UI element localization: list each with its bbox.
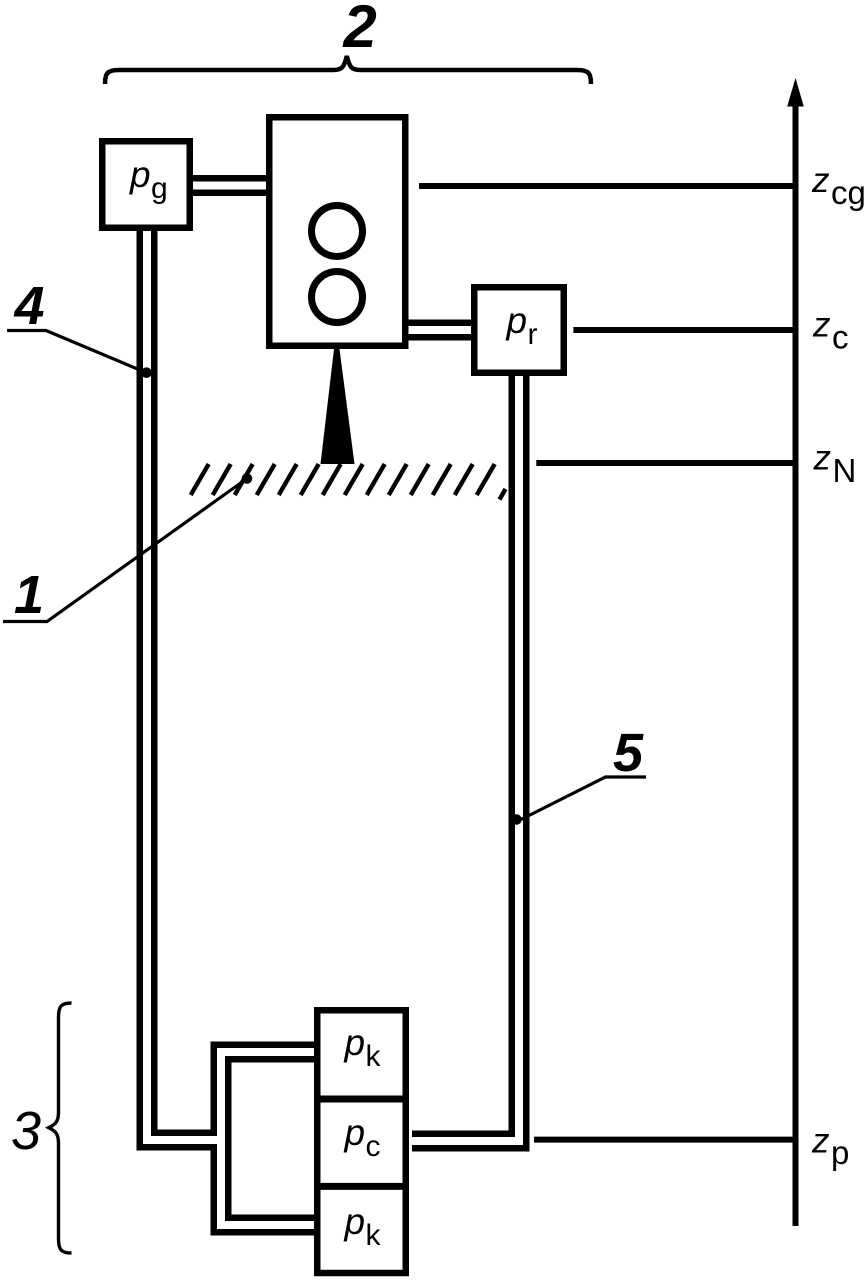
svg-text:z: z xyxy=(813,438,832,477)
label pk top xyxy=(344,1022,382,1073)
label pc xyxy=(344,1112,381,1163)
condenser circle upper xyxy=(312,206,363,257)
label pr xyxy=(506,300,538,351)
left brace 3 xyxy=(49,1003,72,1253)
pipe from pg down to tee junction 4 xyxy=(147,225,221,1140)
stack box pk top xyxy=(317,1010,406,1273)
svg-text:z: z xyxy=(812,306,831,345)
svg-text:cg: cg xyxy=(831,174,866,211)
stack divider 1 xyxy=(314,1096,409,1103)
box pg xyxy=(102,141,190,228)
svg-text:z: z xyxy=(811,1122,830,1161)
z line zN xyxy=(536,460,795,466)
condenser circle lower xyxy=(312,272,363,323)
label pg xyxy=(129,154,168,205)
svg-text:5: 5 xyxy=(613,723,644,783)
label zN xyxy=(813,438,857,489)
svg-text:r: r xyxy=(528,318,538,351)
plumb bob wedge xyxy=(321,349,355,464)
box pr xyxy=(474,287,564,373)
svg-text:g: g xyxy=(151,172,168,205)
label zcg xyxy=(811,161,866,211)
svg-text:k: k xyxy=(366,1219,382,1252)
svg-text:3: 3 xyxy=(11,1101,41,1161)
svg-text:p: p xyxy=(831,1134,849,1171)
pipe loop to pk top and pk bottom xyxy=(221,1052,318,1225)
svg-text:c: c xyxy=(366,1130,381,1163)
label zc xyxy=(812,306,849,356)
svg-text:k: k xyxy=(366,1040,382,1073)
svg-text:p: p xyxy=(129,154,151,195)
stack divider 2 xyxy=(314,1183,409,1190)
svg-text:p: p xyxy=(344,1112,366,1153)
label zp xyxy=(811,1122,849,1172)
z line zp xyxy=(534,1137,796,1143)
top brace 2 xyxy=(105,56,591,84)
axis line xyxy=(793,100,799,1226)
ground hatch xyxy=(191,464,506,500)
leader line 5 xyxy=(511,777,646,825)
z line zcg xyxy=(419,183,796,189)
svg-text:p: p xyxy=(344,1201,366,1242)
svg-text:z: z xyxy=(811,161,830,200)
svg-text:N: N xyxy=(833,452,857,489)
condenser block box xyxy=(269,117,405,346)
pipe from pr down to pc 5 xyxy=(412,372,519,1141)
svg-text:p: p xyxy=(506,300,528,341)
pipe condenser block to pr xyxy=(404,320,475,341)
white cores of pipes xyxy=(147,186,519,1226)
leader line 4 xyxy=(7,331,152,379)
pipe pg to condenser block xyxy=(190,175,270,196)
label pk bottom xyxy=(344,1201,382,1252)
z line zc xyxy=(573,327,795,333)
axis arrowhead xyxy=(787,78,804,107)
svg-text:1: 1 xyxy=(14,565,44,625)
svg-text:4: 4 xyxy=(13,276,44,336)
svg-text:2: 2 xyxy=(342,0,376,60)
leader line 1 xyxy=(3,473,252,621)
svg-text:c: c xyxy=(832,319,849,356)
svg-text:p: p xyxy=(344,1022,366,1063)
